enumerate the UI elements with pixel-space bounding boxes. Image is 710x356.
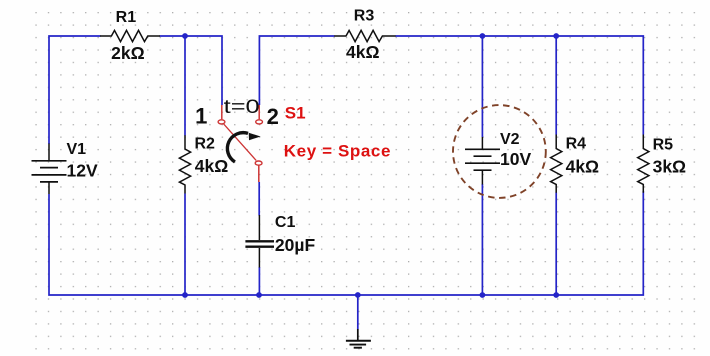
resistor R4 bbox=[551, 135, 600, 193]
svg-text:V2: V2 bbox=[500, 131, 520, 148]
junction node at R4 top bbox=[553, 33, 559, 39]
svg-text:2: 2 bbox=[267, 104, 279, 129]
battery V2 bbox=[465, 131, 531, 185]
wire R4 branch bottom bbox=[555, 193, 557, 296]
wire V2 branch bottom bbox=[481, 184, 483, 295]
junction node at C1 bottom bbox=[256, 292, 262, 298]
svg-text:Key = Space: Key = Space bbox=[284, 142, 391, 161]
svg-text:R1: R1 bbox=[116, 9, 137, 26]
junction node at R4 bottom bbox=[553, 292, 559, 298]
junction node at ground bbox=[355, 292, 361, 298]
svg-text:2kΩ: 2kΩ bbox=[111, 43, 145, 63]
switch toggle arrow bbox=[227, 133, 260, 162]
switch time label t=0 bbox=[224, 96, 260, 118]
resistor R3 bbox=[334, 8, 396, 63]
svg-text:3kΩ: 3kΩ bbox=[653, 157, 687, 177]
node label 2 bbox=[267, 104, 279, 129]
resistor R5 bbox=[638, 135, 686, 193]
svg-text:S1: S1 bbox=[285, 103, 306, 122]
svg-text:4kΩ: 4kΩ bbox=[566, 156, 600, 176]
wire C1 branch bottom bbox=[258, 267, 260, 295]
junction node at V2 bottom bbox=[480, 292, 486, 298]
node label 1 bbox=[195, 104, 207, 129]
resistor R2 bbox=[179, 135, 228, 193]
wire R1 right to switch terminal 1 drop bbox=[160, 36, 223, 105]
svg-text:C1: C1 bbox=[275, 214, 296, 231]
svg-text:R2: R2 bbox=[195, 135, 216, 152]
svg-text:4kΩ: 4kΩ bbox=[346, 42, 380, 62]
wire ground branch bbox=[357, 295, 359, 330]
V2 highlight dashed circle bbox=[453, 105, 546, 198]
svg-text:R4: R4 bbox=[566, 135, 587, 152]
svg-text:V1: V1 bbox=[67, 141, 87, 158]
svg-text:t=0: t=0 bbox=[224, 96, 260, 118]
junction node at V2 top bbox=[480, 33, 486, 39]
svg-text:12V: 12V bbox=[67, 161, 98, 181]
svg-text:10V: 10V bbox=[500, 149, 531, 169]
svg-text:4kΩ: 4kΩ bbox=[195, 156, 229, 176]
wire top-left segment bbox=[49, 36, 101, 144]
svg-text:1: 1 bbox=[195, 104, 207, 129]
wire V2 branch top bbox=[481, 36, 483, 137]
junction node at R2 top bbox=[182, 33, 188, 39]
wire R2 branch top bbox=[184, 36, 186, 136]
wire R4 branch top bbox=[555, 36, 557, 135]
wire R2 branch bottom bbox=[184, 194, 186, 296]
wire switch terminal 2 drop to R3 bbox=[259, 36, 334, 105]
wire bottom bus bbox=[49, 191, 643, 295]
switch key label bbox=[284, 142, 391, 161]
capacitor C1 bbox=[245, 214, 315, 267]
junction node at R2 bottom bbox=[182, 292, 188, 298]
svg-text:R5: R5 bbox=[653, 136, 674, 153]
svg-text:20µF: 20µF bbox=[275, 235, 316, 255]
wire R3 right to R5 top bbox=[396, 36, 644, 135]
resistor R1 bbox=[100, 9, 160, 63]
ground bbox=[346, 329, 371, 348]
svg-text:R3: R3 bbox=[354, 8, 375, 25]
switch S1 bbox=[218, 105, 262, 216]
switch designator S1 bbox=[285, 103, 306, 122]
battery V1 bbox=[32, 141, 98, 194]
